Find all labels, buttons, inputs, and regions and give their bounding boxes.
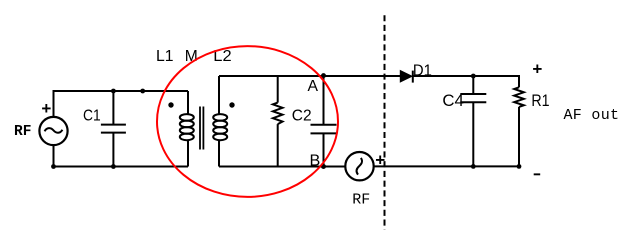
red highlight ellipse — [157, 46, 338, 197]
svg-text:A: A — [308, 78, 319, 95]
polarity dot L2 — [229, 102, 234, 107]
wire primary bottom rail — [54, 166, 189, 168]
resistor load (unlabeled) — [273, 76, 283, 167]
svg-text:L1: L1 — [156, 48, 174, 65]
wire bottom rail right — [374, 165, 519, 167]
wire source V1 bottom lead — [53, 145, 55, 167]
junction dot top rail — [140, 89, 145, 94]
wire primary top rail — [54, 90, 189, 92]
svg-text:C1: C1 — [83, 108, 101, 125]
source RF V2 — [345, 152, 373, 180]
capacitor C2 — [311, 76, 337, 167]
node dot source bottom — [51, 164, 56, 169]
node dot C4 top — [471, 74, 476, 79]
node dot C1 bottom — [111, 164, 116, 169]
transformer core — [200, 107, 203, 150]
node B dot — [321, 164, 326, 169]
capacitor C1 — [101, 91, 126, 167]
wire source V1 top lead — [53, 90, 55, 118]
capacitor C4 — [460, 76, 486, 166]
wire top rail right (cathode to R1) — [413, 75, 519, 77]
inductor L1 primary — [180, 91, 194, 167]
svg-text:R1: R1 — [531, 92, 549, 110]
minus label AF out — [534, 173, 541, 175]
wire secondary bottom rail left — [219, 166, 346, 168]
node A dot — [321, 73, 326, 78]
wire secondary top rail — [219, 75, 401, 77]
resistor R1 — [514, 75, 524, 166]
svg-text:AF out: AF out — [564, 107, 620, 124]
node dot C4 bottom — [471, 164, 476, 169]
polarity dot L1 — [168, 102, 173, 107]
svg-text:C2: C2 — [292, 108, 312, 125]
svg-text:RF: RF — [352, 192, 370, 209]
svg-text:+: + — [532, 61, 542, 80]
source RF V1 — [39, 117, 67, 145]
diode D1 — [400, 71, 413, 83]
svg-text:RF: RF — [14, 124, 31, 140]
svg-text:C4: C4 — [442, 92, 464, 110]
svg-text:+: + — [41, 101, 51, 120]
dashed separator line — [384, 15, 386, 229]
node dot R1 bottom — [517, 164, 522, 169]
inductor L2 secondary — [213, 76, 227, 167]
node dot C1 top — [111, 89, 116, 94]
svg-text:D1: D1 — [413, 63, 432, 80]
